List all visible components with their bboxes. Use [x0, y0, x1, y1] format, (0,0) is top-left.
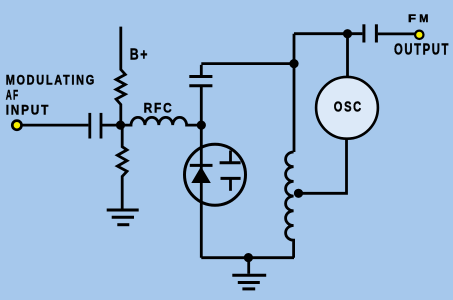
- svg-text:OSC: OSC: [334, 99, 363, 116]
- svg-text:B+: B+: [130, 46, 149, 63]
- svg-text:INPUT: INPUT: [6, 103, 50, 119]
- svg-text:RFC: RFC: [144, 100, 174, 116]
- svg-text:AF: AF: [6, 88, 20, 104]
- svg-text:M: M: [419, 13, 428, 25]
- svg-text:OUTPUT: OUTPUT: [394, 42, 450, 59]
- svg-text:F: F: [408, 13, 416, 25]
- svg-text:MODULATING: MODULATING: [6, 72, 96, 88]
